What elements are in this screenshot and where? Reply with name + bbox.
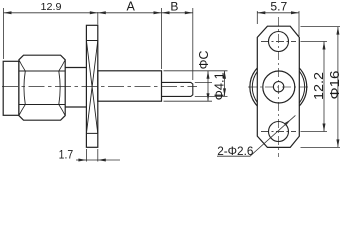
top hole centerline [261, 41, 296, 43]
svg-text:ΦC: ΦC [196, 51, 211, 70]
flange front view outline [257, 26, 299, 147]
dimension PhiC [164, 71, 228, 101]
svg-text:12.2: 12.2 [312, 72, 326, 100]
flange side view [86, 25, 97, 147]
top mounting hole [269, 32, 289, 52]
svg-text:1.7: 1.7 [59, 150, 74, 162]
bottom hole centerline [261, 131, 296, 133]
dimension 1.7 [76, 149, 120, 162]
inner body arcs [252, 71, 304, 103]
svg-text:Φ4.1: Φ4.1 [211, 72, 226, 100]
center pin circle [273, 82, 283, 92]
dimension A [98, 8, 162, 69]
svg-text:2-Φ2.6: 2-Φ2.6 [217, 144, 253, 158]
label 2-Phi2.6 with leader [217, 115, 295, 156]
front view centerline vertical [278, 17, 280, 157]
dimension B [162, 8, 193, 80]
left end cap [3, 61, 19, 115]
svg-text:A: A [127, 0, 136, 14]
svg-text:5.7: 5.7 [270, 2, 287, 14]
dimension 5.7 [257, 11, 299, 36]
centerline side view [2, 86, 197, 88]
svg-text:12.9: 12.9 [41, 1, 62, 13]
svg-text:Φ16: Φ16 [327, 71, 341, 100]
dimension Phi16 [301, 27, 341, 148]
barrel [98, 71, 162, 101]
dimension Phi4.1 [195, 71, 228, 97]
svg-text:B: B [170, 0, 178, 14]
pin [162, 82, 193, 96]
center outer circle [263, 71, 295, 103]
neck between hex and flange [65, 68, 86, 108]
bottom mounting hole [269, 122, 289, 142]
dimension 12.2 [301, 42, 328, 132]
front view centerline horizontal [248, 86, 309, 88]
X cross on flange face [86, 41, 97, 134]
body circle arcs (sides) [250, 68, 307, 106]
dimension 12.9 [4, 8, 98, 59]
hex nut [19, 55, 65, 120]
